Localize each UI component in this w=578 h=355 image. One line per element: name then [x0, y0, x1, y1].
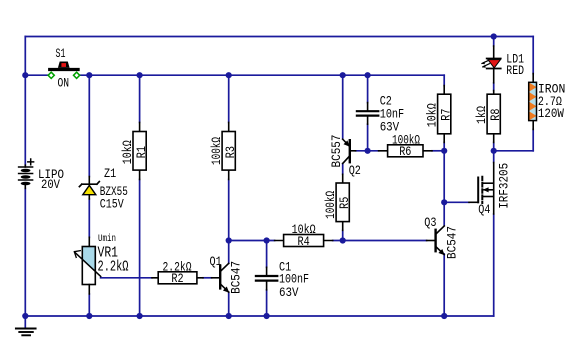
wire C1 top lead [266, 241, 268, 268]
pin stubs R3 [228, 122, 230, 179]
pin stub Q4 gate lead [469, 201, 478, 203]
pin stub Q2 base [350, 150, 356, 152]
transistor Q3 [436, 226, 445, 255]
wire Z1 column upper [88, 75, 90, 176]
ground symbol [16, 329, 36, 336]
svg-text:R8: R8 [489, 109, 503, 121]
wire VR1 wiper to R2 [101, 277, 152, 279]
svg-text:BC557: BC557 [330, 135, 344, 168]
svg-text:Z1: Z1 [104, 167, 116, 181]
wire left rail upper (battery plus to top rail) [24, 37, 26, 166]
svg-text:R1: R1 [135, 146, 149, 158]
wire Q3 emitter to ground rail [443, 254, 445, 316]
wire Q2 emitter column [342, 75, 344, 139]
svg-text:100nF: 100nF [279, 273, 309, 287]
resistor R7 [438, 94, 451, 134]
wire IRON bottom lead [532, 129, 534, 150]
wire R3 bottom to Q1 collector [228, 180, 230, 264]
resistor R8 [487, 94, 500, 134]
transistor Q2 [343, 139, 350, 163]
svg-text:R7: R7 [440, 109, 454, 121]
transistor Q1 [220, 263, 229, 292]
svg-text:Umin: Umin [98, 233, 116, 245]
wire Q2 base to R6 [356, 150, 379, 152]
pin stub Q4 source [493, 197, 495, 215]
svg-text:100kΩ: 100kΩ [324, 191, 338, 219]
svg-text:Q1: Q1 [210, 255, 222, 269]
svg-text:R5: R5 [338, 197, 352, 209]
resistor R6 [388, 145, 423, 157]
wire Z1 to VR1 [88, 199, 90, 237]
svg-text:BC547: BC547 [446, 226, 460, 259]
wire R2 to Q1 base [203, 277, 212, 279]
svg-text:R4: R4 [298, 235, 310, 249]
pin stubs R5 [342, 174, 344, 230]
wire R3 top lead [228, 75, 230, 122]
svg-text:C15V: C15V [100, 197, 124, 211]
wire R5 bottom to node [342, 230, 344, 240]
svg-text:S1: S1 [56, 47, 66, 61]
wire bottom ground rail [25, 315, 493, 317]
pin stubs C1 [266, 267, 268, 290]
pin stubs R1 [139, 122, 141, 179]
pin stubs R7 [443, 86, 445, 143]
svg-text:1kΩ: 1kΩ [475, 106, 489, 124]
svg-text:63V: 63V [380, 121, 400, 135]
capacitor C1 [256, 276, 277, 281]
svg-text:63V: 63V [279, 286, 299, 300]
wire drain node to Q4 drain [493, 151, 495, 163]
svg-text:IRF3205: IRF3205 [498, 163, 512, 209]
pin stubs R2 [152, 277, 203, 279]
pin stubs LED LD1 [493, 46, 495, 83]
svg-text:20V: 20V [41, 178, 60, 192]
pin stubs IRON [532, 74, 534, 130]
wire top rail [25, 36, 533, 38]
svg-text:ON: ON [58, 77, 70, 91]
svg-text:Q4: Q4 [478, 203, 490, 217]
wire Q4 source to ground rail [493, 214, 495, 316]
LED LD1 [481, 59, 501, 69]
pin stub Z1 [88, 177, 90, 200]
wire drain node to IRON branch [494, 150, 534, 152]
pin stubs R4 [275, 240, 333, 242]
wire S1 rail right segment [80, 74, 445, 76]
svg-text:100kΩ: 100kΩ [210, 137, 224, 165]
wire S1 rail left segment [25, 74, 48, 76]
wire R8 bottom to drain node [493, 142, 495, 150]
battery LIPO symbol [19, 159, 34, 185]
wire C2 bottom to Q2 base node [367, 124, 369, 151]
svg-text:2.2kΩ: 2.2kΩ [98, 259, 129, 275]
wire IRON top to top rail [532, 37, 534, 74]
pin stub Q4 drain [493, 163, 495, 184]
svg-text:R2: R2 [171, 272, 183, 286]
resistor R1 [133, 132, 146, 171]
wire LED cathode to R8 [493, 83, 495, 91]
resistor R2 [158, 272, 197, 284]
wire left rail lower (battery minus to ground rail) [24, 189, 26, 328]
svg-text:RED: RED [506, 64, 524, 78]
pin stubs VR1 [88, 237, 90, 294]
wire R4 row left [229, 240, 275, 242]
svg-text:C2: C2 [380, 94, 392, 108]
pin stub Q1 base [212, 277, 220, 279]
wire R1 top lead [139, 75, 141, 122]
wire C2 top lead [367, 75, 369, 102]
heating element IRON [529, 82, 537, 120]
wire LED column top [493, 37, 495, 47]
potentiometer VR1 [74, 247, 100, 285]
wire Q1 emitter to ground rail [228, 292, 230, 316]
svg-text:120W: 120W [538, 107, 564, 121]
resistor R3 [222, 132, 235, 171]
wire gate node to Q4 gate [444, 201, 469, 203]
svg-text:10kΩ: 10kΩ [426, 103, 440, 127]
zener diode Z1 [79, 182, 99, 195]
pin stubs R6 [379, 150, 432, 152]
resistor R5 [336, 183, 349, 222]
svg-text:10kΩ: 10kΩ [121, 140, 135, 164]
battery BAT LIPO pins [24, 165, 26, 188]
wire Q2 collector to R5 [342, 164, 344, 175]
wire R7 bottom to Q3 collector [443, 142, 445, 225]
wire R6 to R7 node [432, 150, 444, 152]
resistor R4 [284, 235, 324, 247]
wire R4 row right to Q3 base [333, 240, 427, 242]
wire R1 bottom to ground rail [139, 180, 141, 317]
pin stub Q3 base [427, 240, 435, 242]
wire R7 top lead from S1 rail corner [443, 75, 445, 85]
switch S1 [48, 62, 80, 79]
svg-text:R3: R3 [224, 146, 238, 158]
svg-text:R6: R6 [399, 145, 411, 159]
svg-text:10nF: 10nF [380, 107, 405, 121]
svg-text:BC547: BC547 [230, 261, 244, 294]
wire VR1 bottom to ground rail [88, 294, 90, 316]
pin stubs R8 [493, 91, 495, 143]
wire C1 bottom to ground rail [266, 290, 268, 316]
svg-text:Q2: Q2 [349, 164, 361, 178]
mosfet Q4 [478, 177, 494, 203]
pin stubs C2 [367, 103, 369, 125]
svg-text:Q3: Q3 [424, 216, 436, 230]
capacitor C2 [357, 111, 378, 115]
